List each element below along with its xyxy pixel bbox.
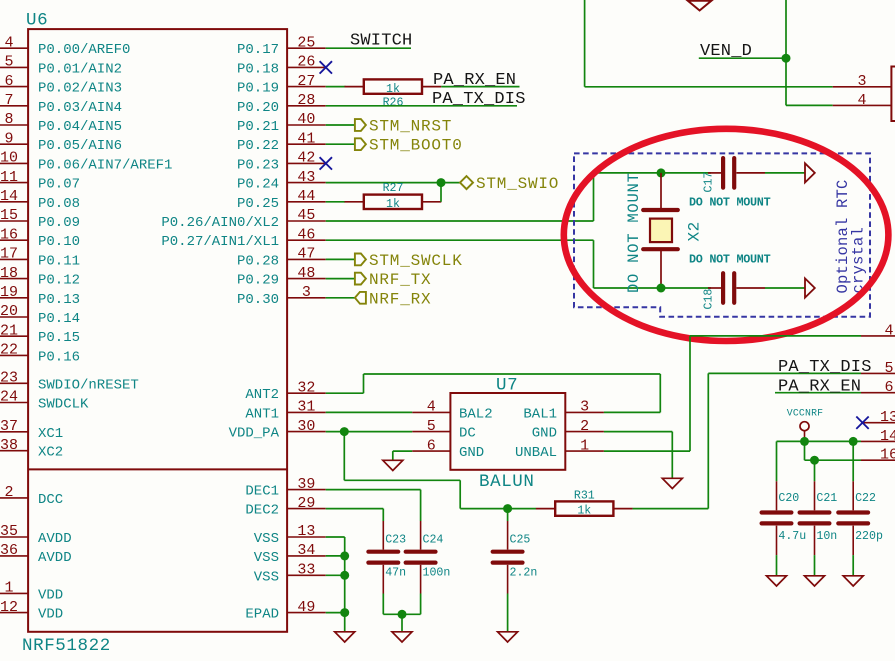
svg-text:38: 38 [0, 437, 18, 454]
svg-text:1k: 1k [386, 83, 400, 96]
svg-text:3: 3 [580, 399, 589, 416]
svg-text:DO NOT MOUNT: DO NOT MOUNT [689, 196, 771, 210]
svg-text:P0.01/AIN2: P0.01/AIN2 [38, 61, 122, 77]
svg-text:2.2n: 2.2n [510, 567, 538, 580]
svg-text:SWDCLK: SWDCLK [38, 397, 89, 413]
svg-text:18: 18 [0, 265, 18, 282]
wire riser to PA_TX_DIS [707, 373, 709, 508]
wire VEN_D label stub [699, 57, 786, 59]
wire BAL1 [604, 411, 660, 413]
wire C18 to arrow [765, 287, 805, 289]
svg-text:C18: C18 [703, 289, 716, 310]
wire down to BAL1 [659, 374, 661, 412]
svg-text:VDD: VDD [38, 587, 63, 603]
svg-text:PA_TX_DIS: PA_TX_DIS [778, 358, 872, 377]
svg-text:U7: U7 [496, 376, 518, 396]
junction VEN_D [782, 54, 791, 63]
capacitor C22 [838, 510, 868, 514]
pin 29 DEC2 (U6 right) [287, 508, 326, 510]
pin 49 EPAD (U6 right) [287, 612, 326, 614]
svg-text:P0.12: P0.12 [38, 273, 80, 289]
svg-text:P0.19: P0.19 [237, 81, 279, 97]
svg-text:14: 14 [0, 188, 18, 205]
wire pin48 to NRF_TX [326, 278, 355, 280]
pin 32 ANT2 (U6 right) [287, 392, 326, 394]
svg-text:1: 1 [4, 580, 13, 597]
svg-text:P0.20: P0.20 [237, 100, 279, 116]
svg-text:P0.24: P0.24 [237, 177, 279, 193]
wire crystal bottom row left [594, 287, 662, 289]
svg-text:VSS: VSS [254, 550, 279, 566]
svg-text:GND: GND [459, 445, 484, 461]
svg-text:BAL1: BAL1 [523, 406, 557, 422]
svg-text:EPAD: EPAD [245, 607, 279, 623]
wire PA_RX_EN [775, 392, 861, 394]
wire row16 [805, 459, 862, 461]
svg-text:P0.16: P0.16 [38, 349, 80, 365]
wire ANT2 up [363, 374, 365, 393]
pin 28 P0.20 (U6 right) [287, 105, 326, 107]
hierarchical label arrow NRF_TX [355, 273, 366, 285]
wire U7 GND pin2 [604, 431, 672, 433]
wire U7 GND pin6 [393, 450, 412, 452]
svg-text:P0.09: P0.09 [38, 215, 80, 231]
wire pin44 to R27 [326, 201, 345, 203]
svg-text:SWITCH: SWITCH [350, 32, 412, 51]
svg-text:3: 3 [302, 284, 311, 301]
svg-text:21: 21 [0, 322, 18, 339]
svg-text:44: 44 [297, 188, 315, 205]
pin 1 UNBAL (U7 right) [565, 450, 604, 452]
svg-text:ANT2: ANT2 [245, 387, 279, 403]
svg-text:VCCNRF: VCCNRF [787, 407, 823, 418]
pin 16 P0.10 (U6 left) [0, 239, 28, 241]
wire to ground [392, 451, 394, 460]
connector J? top right: pin 3 [833, 86, 892, 88]
svg-text:1k: 1k [577, 505, 591, 518]
pin 37 XC1 (U6 left) [0, 431, 28, 433]
pin 3 BAL1 (U7 right) [565, 411, 604, 413]
pin 6 P0.02/AIN3 (U6 left) [0, 86, 28, 88]
svg-text:UNBAL: UNBAL [515, 445, 557, 461]
capacitor C18 [721, 273, 725, 303]
svg-text:P0.13: P0.13 [38, 292, 80, 308]
capacitor C20 [762, 510, 792, 514]
svg-text:100n: 100n [423, 567, 451, 580]
pin 8 P0.04/AIN5 (U6 left) [0, 124, 28, 126]
red highlight ellipse [564, 129, 889, 341]
capacitor C24 [406, 550, 436, 554]
C23 top lead [382, 521, 384, 550]
svg-text:P0.00/AREF0: P0.00/AREF0 [38, 42, 130, 58]
svg-text:2: 2 [4, 484, 13, 501]
capacitor C21 branch [814, 460, 816, 481]
svg-text:crystal: crystal [850, 227, 868, 294]
pin 19 P0.13 (U6 left) [0, 297, 28, 299]
resistor R26 [345, 86, 364, 88]
svg-text:39: 39 [297, 476, 315, 493]
wire pin32 ANT2 [326, 392, 364, 394]
hierarchical label arrow STM_BOOT0 [355, 138, 366, 150]
pin 27 P0.19 (U6 right) [287, 86, 326, 88]
pin 46 P0.27/AIN1/XL1 (U6 right) [287, 239, 326, 241]
junction VSS pin34 [340, 551, 349, 560]
junction gnd rail [398, 610, 407, 619]
junction EPAD [340, 608, 349, 617]
svg-text:6: 6 [884, 379, 893, 396]
capacitor C17 lead left [708, 172, 721, 174]
svg-text:C25: C25 [510, 534, 531, 547]
pin 39 DEC1 (U6 right) [287, 489, 326, 491]
hierarchical label arrow STM_SWCLK [355, 254, 366, 266]
svg-text:BALUN: BALUN [479, 472, 535, 492]
wire UNBAL up [689, 336, 691, 451]
svg-text:2: 2 [580, 418, 589, 435]
connector pin 6 stub (right edge) [861, 392, 895, 394]
pin 10 P0.06/AIN7/AREF1 (U6 left) [0, 162, 28, 164]
svg-text:NRF51822: NRF51822 [22, 636, 111, 656]
junction crystal top [657, 168, 666, 177]
svg-text:P0.25: P0.25 [237, 196, 279, 212]
capacitor C25 [493, 550, 523, 554]
svg-text:40: 40 [297, 111, 315, 128]
svg-text:GND: GND [532, 426, 557, 442]
svg-text:STM_BOOT0: STM_BOOT0 [369, 137, 463, 155]
pin 34 VSS (U6 right) [287, 555, 326, 557]
svg-text:VSS: VSS [254, 569, 279, 585]
svg-text:XC2: XC2 [38, 445, 63, 461]
svg-text:4: 4 [4, 34, 13, 51]
svg-text:4.7u: 4.7u [778, 530, 806, 543]
wire pin45 XL2 [326, 220, 594, 222]
wire DEC1 [326, 489, 421, 491]
pin 5 P0.01/AIN2 (U6 left) [0, 66, 28, 68]
svg-text:U6: U6 [26, 11, 48, 31]
wire pin43 to STM_SWIO [326, 182, 460, 184]
pin 41 P0.22 (U6 right) [287, 143, 326, 145]
svg-text:16: 16 [880, 447, 895, 464]
wire C23 to gnd rail [382, 594, 384, 615]
no-connect pin 13 (right edge) [863, 422, 895, 424]
power symbol triangle (clipped at top) [688, 1, 711, 11]
svg-text:36: 36 [0, 542, 18, 559]
pin 23 SWDIO/nRESET (U6 left) [0, 382, 28, 384]
wire antenna to connector pin 4 [690, 335, 861, 337]
capacitor C23 [368, 550, 398, 554]
pin 38 XC2 (U6 left) [0, 450, 28, 452]
ground symbol near U7 [383, 460, 403, 470]
svg-text:P0.07: P0.07 [38, 177, 80, 193]
pin 45 P0.26/AIN0/XL2 (U6 right) [287, 220, 326, 222]
svg-text:46: 46 [297, 226, 315, 243]
svg-text:P0.27/AIN1/XL1: P0.27/AIN1/XL1 [161, 234, 279, 250]
svg-text:P0.11: P0.11 [38, 253, 80, 269]
no-connect pin 26 [320, 61, 332, 73]
wire C25 top [507, 509, 509, 521]
svg-text:5: 5 [427, 418, 436, 435]
connector J? top right: pin 4 [833, 104, 892, 106]
wire XL1 down to crystal bottom row [593, 240, 595, 288]
hierarchical sheet-pin arrow top [805, 163, 815, 182]
svg-text:DC: DC [459, 426, 476, 442]
junction C25/R31 [503, 504, 512, 513]
pin 12 VDD (U6 left) [0, 612, 28, 614]
pin 4 P0.00/AREF0 (U6 left) [0, 47, 28, 49]
pin 33 VSS (U6 right) [287, 574, 326, 576]
svg-text:37: 37 [0, 418, 18, 435]
pin 44 P0.25 (U6 right) [287, 201, 326, 203]
wire C25 to ground [507, 594, 509, 632]
wire pin31 ANT1 to BAL2 [326, 411, 413, 413]
pin 18 P0.12 (U6 left) [0, 278, 28, 280]
wire to connector pin 3 [585, 86, 833, 88]
svg-text:16: 16 [0, 226, 18, 243]
ground symbol C25 [498, 632, 518, 642]
C17 lead right [736, 172, 765, 174]
pin 5 DC (U7 left) [412, 431, 450, 433]
svg-text:P0.17: P0.17 [237, 42, 279, 58]
VCCNRF lead [804, 430, 806, 441]
pin 31 ANT1 (U6 right) [287, 411, 326, 413]
wire pin25 to SWITCH label [326, 47, 411, 49]
svg-text:49: 49 [297, 599, 315, 616]
wire XL2 up to crystal top row [593, 173, 595, 221]
wire crystal bottom row to C18 [661, 287, 711, 289]
resistor R31 [536, 508, 555, 510]
ground symbol right of U7 [662, 478, 682, 488]
junction crystal bottom [657, 284, 666, 293]
svg-text:P0.14: P0.14 [38, 311, 80, 327]
C25 top lead [507, 521, 509, 550]
pin 40 P0.21 (U6 right) [287, 124, 326, 126]
hierarchical label arrow STM_NRST [355, 119, 366, 131]
wire R31 to PA_TX_DIS riser [633, 508, 709, 510]
U6 internal section divider [28, 468, 287, 470]
svg-text:4: 4 [884, 322, 893, 339]
svg-text:P0.28: P0.28 [237, 253, 279, 269]
connector pin 4 stub (right edge) [861, 335, 895, 337]
svg-text:23: 23 [0, 370, 18, 387]
svg-text:P0.29: P0.29 [237, 273, 279, 289]
capacitor C18 lead left [708, 287, 721, 289]
svg-text:26: 26 [297, 54, 315, 71]
svg-text:5: 5 [4, 54, 13, 71]
ground symbol C21 [805, 576, 825, 586]
svg-text:P0.21: P0.21 [237, 119, 279, 135]
C25 bottom lead [507, 565, 509, 594]
junction C22 tap [849, 437, 858, 446]
crystal X2 bottom lead [660, 249, 662, 288]
svg-text:DEC1: DEC1 [245, 484, 279, 500]
wire VDD_PA down [343, 432, 345, 481]
wire VSS vertical [344, 537, 346, 632]
ground symbol C20 [767, 576, 787, 586]
wire pin27 to R26 [326, 86, 346, 88]
crystal X2 top lead [660, 173, 662, 210]
svg-text:R26: R26 [383, 97, 404, 110]
svg-text:VDD_PA: VDD_PA [229, 426, 280, 442]
pin 35 AVDD (U6 left) [0, 536, 28, 538]
pin 48 P0.29 (U6 right) [287, 278, 326, 280]
wire R26 to PA_RX_EN label [441, 86, 519, 88]
ground symbol VSS [335, 632, 355, 642]
svg-text:PA_RX_EN: PA_RX_EN [778, 377, 861, 396]
svg-text:NRF_RX: NRF_RX [369, 290, 431, 308]
wire pin47 to STM_SWCLK [326, 258, 355, 260]
svg-text:47: 47 [297, 246, 315, 263]
svg-text:8: 8 [4, 111, 13, 128]
capacitor C21 [800, 510, 830, 514]
svg-text:43: 43 [297, 169, 315, 186]
connector pin 5 stub (right edge) [861, 372, 895, 374]
svg-text:3: 3 [857, 73, 866, 90]
capacitor C17 [721, 158, 725, 188]
svg-text:32: 32 [297, 379, 315, 396]
wire EPAD pin49 [326, 612, 345, 614]
svg-text:13: 13 [880, 409, 895, 426]
C23 bottom lead [382, 565, 384, 594]
wire down to ground [671, 432, 673, 479]
svg-text:R27: R27 [383, 182, 404, 195]
svg-text:P0.22: P0.22 [237, 138, 279, 154]
pin 25 P0.17 (U6 right) [287, 47, 326, 49]
pin 24 SWDCLK (U6 left) [0, 402, 28, 404]
svg-text:34: 34 [297, 542, 315, 559]
svg-text:28: 28 [297, 92, 315, 109]
svg-text:ANT1: ANT1 [245, 406, 279, 422]
svg-text:17: 17 [0, 246, 18, 263]
svg-text:P0.04/AIN5: P0.04/AIN5 [38, 119, 122, 135]
svg-text:P0.15: P0.15 [38, 330, 80, 346]
pin 7 P0.03/AIN4 (U6 left) [0, 105, 28, 107]
svg-text:24: 24 [0, 389, 18, 406]
wire pin41 to STM_BOOT0 [326, 143, 355, 145]
wire VDD_PA down 2 [459, 480, 461, 508]
wire VDD_PA right [344, 479, 460, 481]
pin 30 VDD_PA (U6 right) [287, 431, 326, 433]
wire PA_TX_DIS [708, 372, 861, 374]
pin 43 P0.24 (U6 right) [287, 182, 326, 184]
svg-text:XC1: XC1 [38, 426, 63, 442]
svg-text:25: 25 [297, 34, 315, 51]
svg-text:41: 41 [297, 130, 315, 147]
svg-text:STM_SWCLK: STM_SWCLK [369, 252, 463, 270]
svg-text:29: 29 [297, 495, 315, 512]
svg-text:9: 9 [4, 130, 13, 147]
C24 top lead [420, 521, 422, 550]
svg-text:DO NOT MOUNT: DO NOT MOUNT [625, 172, 643, 293]
svg-text:22: 22 [0, 342, 18, 359]
svg-text:19: 19 [0, 284, 18, 301]
ground symbol C22 [843, 576, 863, 586]
svg-text:P0.30: P0.30 [237, 292, 279, 308]
C18 lead right [736, 287, 765, 289]
svg-text:13: 13 [297, 523, 315, 540]
capacitor C22 branch [852, 441, 854, 481]
pin 3 P0.30 (U6 right) [287, 297, 326, 299]
svg-text:DCC: DCC [38, 492, 63, 508]
svg-text:15: 15 [0, 207, 18, 224]
diamond shape STM_SWIO [460, 176, 473, 189]
pin 22 P0.16 (U6 left) [0, 354, 28, 356]
wire DEC2 [326, 508, 384, 510]
wire pin46 XL1 [326, 239, 594, 241]
wire to ground [401, 614, 403, 632]
svg-text:C24: C24 [423, 534, 444, 547]
IC U7 BALUN body [450, 393, 565, 470]
svg-text:R31: R31 [574, 490, 595, 503]
pin 9 P0.05/AIN6 (U6 left) [0, 143, 28, 145]
wire pin30 VDD_PA to DC [326, 431, 413, 433]
svg-text:C20: C20 [778, 492, 799, 505]
wire to connector pin 4 [786, 104, 833, 106]
pin 4 BAL2 (U7 left) [412, 411, 450, 413]
svg-text:31: 31 [297, 399, 315, 416]
wire pin40 to STM_NRST [326, 124, 355, 126]
IC U6 NRF51822 body [28, 29, 287, 632]
wire pin3 to NRF_RX [326, 297, 355, 299]
wire VSS pin13 [326, 536, 345, 538]
wire ANT2 across [364, 373, 661, 375]
svg-text:1k: 1k [386, 198, 400, 211]
no-connect pin 42 [320, 157, 332, 169]
svg-text:220p: 220p [855, 530, 883, 543]
pin 20 P0.14 (U6 left) [0, 316, 28, 318]
wire to R31 [460, 508, 536, 510]
wire down to row16 [804, 441, 806, 460]
svg-text:4: 4 [427, 399, 436, 416]
svg-text:P0.10: P0.10 [38, 234, 80, 250]
junction VCCNRF [800, 437, 809, 446]
pin 6 GND (U7 left) [412, 450, 450, 452]
wire crystal top row to C17 [594, 172, 712, 174]
svg-text:11: 11 [0, 169, 18, 186]
wire vertical VEN_D net [785, 0, 787, 105]
connector J? top right body edge [891, 67, 895, 122]
junction C21 tap [810, 456, 819, 465]
wire DEC1 down [420, 490, 422, 521]
svg-text:C21: C21 [816, 492, 837, 505]
svg-text:P0.26/AIN0/XL2: P0.26/AIN0/XL2 [161, 215, 279, 231]
wire UNBAL [604, 450, 690, 452]
svg-text:5: 5 [884, 360, 893, 377]
svg-text:DEC2: DEC2 [245, 503, 279, 519]
pin 11 P0.07 (U6 left) [0, 182, 28, 184]
svg-text:35: 35 [0, 523, 18, 540]
svg-text:STM_NRST: STM_NRST [369, 118, 452, 136]
svg-text:20: 20 [0, 303, 18, 320]
pin 26 P0.18 (U6 right) [287, 66, 326, 68]
wire pin28 to PA_TX_DIS label [326, 105, 517, 107]
svg-text:6: 6 [427, 437, 436, 454]
junction VSS pin33 [340, 571, 349, 580]
svg-text:P0.03/AIN4: P0.03/AIN4 [38, 100, 122, 116]
svg-text:27: 27 [297, 73, 315, 90]
svg-text:4: 4 [857, 92, 866, 109]
svg-text:DO NOT MOUNT: DO NOT MOUNT [689, 253, 771, 267]
wire VSS pin34 [326, 555, 345, 557]
pin 2 DCC (U6 left) [0, 497, 28, 499]
hierarchical label arrow NRF_RX [355, 292, 366, 304]
svg-text:VSS: VSS [254, 531, 279, 547]
pin 21 P0.15 (U6 left) [0, 335, 28, 337]
svg-text:P0.02/AIN3: P0.02/AIN3 [38, 81, 122, 97]
wire DEC2 down [382, 509, 384, 521]
svg-text:30: 30 [297, 418, 315, 435]
pin 15 P0.09 (U6 left) [0, 220, 28, 222]
svg-text:47n: 47n [385, 567, 406, 580]
svg-text:C22: C22 [855, 492, 876, 505]
